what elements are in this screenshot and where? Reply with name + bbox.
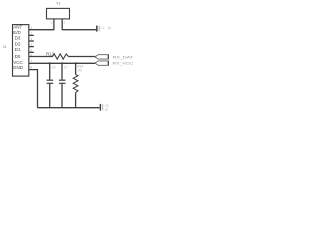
pin stub D2 (29, 46, 34, 48)
capacitor C6 top lead (49, 63, 51, 80)
capacitor C5 plate 1 (99, 104, 101, 111)
svg-text:C4: C4 (101, 26, 105, 30)
off-page flag RX_DAT right bar (107, 55, 109, 60)
junction dot C6/VCC (49, 62, 51, 64)
capacitor C7 top lead (61, 63, 63, 80)
svg-text:GND: GND (13, 65, 24, 70)
wire R12 to RX_DAT flag (68, 56, 95, 58)
wire VCC to RX_VCC flag (29, 62, 95, 64)
capacitor C4 plate 1 (96, 26, 98, 32)
capacitor C6 bottom lead (49, 84, 51, 108)
wire GND pin down to ground rail (29, 70, 38, 108)
svg-text:D1: D1 (15, 47, 21, 52)
svg-text:1M: 1M (77, 68, 82, 72)
junction dot R13/VCC (75, 62, 77, 64)
pin stub D3 (29, 40, 34, 42)
capacitor C7 plate 2 (59, 82, 66, 84)
wire Y1 left leg (53, 19, 55, 30)
svg-text:C6: C6 (51, 66, 55, 70)
wire D0 to resistor R12 (29, 56, 53, 58)
capacitor C6 plate 2 (47, 82, 54, 84)
svg-text:R12: R12 (46, 51, 55, 56)
capacitor C7 bottom lead (61, 84, 63, 108)
pin stub E/D (29, 34, 34, 36)
junction dot C7/VCC (61, 62, 63, 64)
svg-text:E/D: E/D (13, 30, 21, 35)
resistor R13 bottom lead (75, 93, 77, 108)
svg-text:D2: D2 (15, 41, 21, 46)
crystal Y1 body (47, 8, 70, 19)
svg-text:D3: D3 (15, 36, 21, 41)
capacitor C6 plate 1 (47, 79, 54, 81)
svg-text:D0: D0 (15, 54, 21, 59)
pin stub D1 (29, 51, 34, 53)
off-page flag RX_DAT (95, 55, 108, 59)
svg-text:RX_VCC: RX_VCC (113, 61, 134, 66)
svg-text:Y1: Y1 (56, 1, 62, 6)
connector J1 body (13, 25, 29, 77)
capacitor C7 plate 1 (59, 79, 66, 81)
wire ANT pin to Y1 left leg (29, 29, 54, 31)
resistor R12 zigzag (53, 54, 69, 59)
capacitor C5 plate 2 (102, 104, 104, 110)
svg-text:C7: C7 (64, 66, 68, 70)
svg-text:1p: 1p (105, 108, 109, 112)
ground rail wire (38, 107, 100, 109)
capacitor C4 plate 2 (98, 26, 100, 31)
resistor R13 top lead (75, 63, 77, 74)
off-page flag RX_VCC right bar (107, 61, 109, 66)
svg-text:1p: 1p (108, 26, 112, 30)
off-page flag RX_VCC (95, 61, 108, 65)
resistor R13 zigzag (73, 75, 78, 93)
wire Y1 right leg to C4 (62, 19, 96, 30)
svg-text:RX_DAT: RX_DAT (113, 54, 134, 59)
